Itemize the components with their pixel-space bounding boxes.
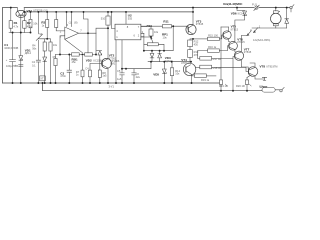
wire motor bottom — [252, 8, 291, 28]
diode VD4 — [158, 51, 162, 62]
svg-text:R15 100: R15 100 — [208, 33, 218, 37]
wire trigger drop — [122, 62, 151, 69]
connector XT1 tag — [40, 76, 46, 81]
capacitor C1 — [10, 33, 16, 84]
diode VD7 — [285, 8, 289, 28]
resistor R6 — [79, 33, 98, 56]
transistor VT4 — [183, 63, 195, 83]
resistor R12 — [188, 40, 193, 47]
svg-text:VD2: VD2 — [86, 59, 92, 63]
diode VD3 — [150, 51, 154, 62]
svg-text:КТ814: КТ814 — [181, 61, 189, 65]
svg-text:R11: R11 — [163, 19, 169, 23]
resistor R19b — [192, 74, 217, 78]
resistor R3 — [46, 12, 49, 39]
svg-text:10k: 10k — [33, 22, 38, 26]
svg-text:R19 1R: R19 1R — [219, 84, 228, 88]
wire rail junction — [192, 8, 194, 12]
capacitor C4 — [89, 63, 100, 83]
svg-text:VD6: VD6 — [231, 11, 237, 15]
node Uin label — [223, 2, 243, 6]
svg-text:(1): (1) — [69, 21, 72, 25]
svg-text:ВИ1: ВИ1 — [110, 61, 116, 65]
capacitor C6 — [132, 69, 137, 83]
svg-text:22н: 22н — [136, 75, 141, 79]
svg-text:1н5: 1н5 — [117, 77, 122, 81]
svg-text:C5: C5 — [117, 69, 121, 73]
resistor R20 emitter — [246, 78, 248, 80]
resistor R6a — [55, 55, 57, 84]
resistor R5a — [49, 42, 52, 83]
svg-text:R10: R10 — [147, 24, 153, 28]
wire left border — [2, 8, 4, 83]
svg-text:VT1: VT1 — [27, 9, 33, 13]
svg-text:Uin(11-40)VDC: Uin(11-40)VDC — [223, 2, 243, 6]
wire lower rail — [24, 11, 193, 13]
resistor R17 — [200, 57, 235, 91]
svg-text:1000,0×50В: 1000,0×50В — [4, 46, 18, 50]
svg-text:12v(6A/1-80%): 12v(6A/1-80%) — [253, 38, 270, 42]
resistor R11 — [141, 25, 189, 30]
svg-text:3-У1: 3-У1 — [109, 85, 115, 89]
capacitor C5 — [120, 40, 125, 83]
svg-text:470n: 470n — [60, 74, 66, 78]
transistor VT2 — [96, 12, 112, 83]
svg-text:R20 1R: R20 1R — [236, 84, 245, 88]
wire diode net bottom — [148, 61, 191, 63]
svg-text:КТ815: КТ815 — [231, 27, 239, 31]
capacitor C2 — [36, 60, 40, 62]
wire pin2-6 drop — [143, 33, 145, 50]
svg-text:R18 1к: R18 1к — [213, 66, 222, 70]
IC U2 — [112, 12, 152, 40]
node misc text — [109, 85, 115, 89]
connector X1 — [241, 28, 258, 53]
svg-text:Шунт: Шунт — [260, 84, 268, 88]
resistor R13 — [188, 47, 193, 64]
wire bottom rail — [3, 82, 220, 84]
svg-text:VT8: VT8 — [260, 64, 266, 68]
resistor R19 emitter — [219, 80, 222, 85]
terminal minus — [280, 87, 284, 92]
svg-text:SF: SF — [39, 32, 43, 36]
transistor VT7 — [234, 51, 248, 69]
svg-text:КТ825Б (У1): КТ825Б (У1) — [34, 9, 49, 13]
svg-text:(8): (8) — [74, 21, 77, 25]
transistor VT5 — [223, 27, 231, 42]
resistor R7 — [81, 56, 84, 83]
wire pot top tie — [172, 26, 174, 51]
zener VD1 — [19, 56, 23, 83]
node motor spec — [253, 38, 270, 42]
svg-text:510: 510 — [101, 16, 106, 20]
ground — [262, 77, 266, 80]
wire IC pin1 — [115, 40, 117, 83]
svg-text:C4: C4 — [85, 66, 89, 70]
wire shunt line — [43, 83, 262, 91]
wire diode net top — [144, 50, 173, 52]
wire feedback — [84, 12, 89, 53]
fuse FU1 — [254, 5, 259, 10]
node U2 part no — [0, 0, 1, 1]
wire node A — [9, 32, 31, 34]
motor M1 — [271, 8, 282, 28]
svg-text:КТ819ГМ: КТ819ГМ — [267, 64, 278, 68]
svg-text:R17 1к: R17 1к — [213, 57, 222, 61]
svg-text:FU1: FU1 — [252, 3, 257, 7]
node IC part no — [110, 59, 120, 65]
wire top rail — [3, 7, 291, 9]
zener VD5 — [162, 62, 166, 83]
svg-text:КТ815: КТ815 — [196, 22, 204, 26]
svg-text:R9: R9 — [53, 55, 57, 59]
node VT1 labels — [27, 9, 49, 13]
resistor R14a — [170, 62, 173, 83]
wire R12 chain — [190, 39, 193, 40]
svg-text:КТ815: КТ815 — [244, 50, 252, 54]
zener VD6 — [235, 8, 247, 43]
transistor VT1 — [16, 8, 26, 56]
wire switch net — [38, 39, 50, 42]
resistor R15 — [208, 35, 223, 41]
zener VD2 — [98, 51, 102, 64]
op-amp DA1 — [53, 12, 96, 83]
resistor R2 — [23, 12, 26, 33]
zener VD8 — [43, 57, 47, 83]
resistor R16 — [198, 46, 230, 59]
transistor VT6 — [229, 41, 238, 52]
svg-text:R19 1к: R19 1к — [201, 78, 210, 82]
resistor R18 — [196, 65, 249, 71]
switch SF1 — [36, 12, 42, 83]
svg-text:КС147: КС147 — [238, 11, 246, 15]
resistor R5 — [56, 53, 80, 56]
resistor R2b — [29, 12, 32, 28]
transistor VT3 — [186, 12, 208, 39]
capacitor C3 — [67, 55, 72, 84]
svg-text:430: 430 — [194, 42, 199, 46]
svg-text:C2: C2 — [32, 60, 36, 64]
svg-text:555: 555 — [128, 17, 133, 21]
resistor R8 — [98, 63, 101, 83]
wire R2b drop — [30, 28, 32, 33]
resistor R10 — [149, 27, 153, 38]
svg-text:R16 1к: R16 1к — [208, 45, 217, 49]
svg-text:Д814: Д814 — [25, 51, 32, 55]
svg-text:100µ×50В: 100µ×50В — [6, 64, 18, 68]
node ticks — [225, 84, 251, 86]
svg-text:ХТ: ХТ — [40, 77, 44, 81]
potentiometer RP1 — [144, 38, 164, 51]
resistor R1 — [9, 8, 12, 33]
terminal plus — [290, 5, 294, 9]
svg-text:VD5: VD5 — [153, 72, 159, 76]
shunt RS — [262, 88, 280, 93]
resistor R5v — [55, 12, 65, 31]
transistor VT8 — [247, 63, 265, 79]
svg-text:1к5: 1к5 — [102, 74, 107, 78]
wire collector bus — [220, 27, 222, 80]
svg-text:0,1: 0,1 — [32, 64, 36, 68]
resistor R4 — [43, 42, 46, 57]
